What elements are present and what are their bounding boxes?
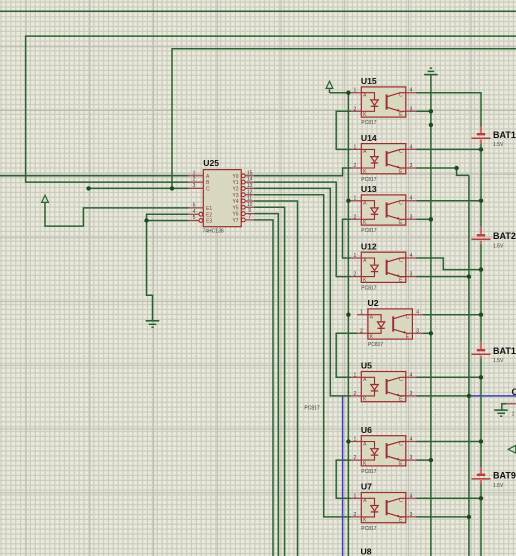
- wire U25 pin E3: [147, 220, 189, 222]
- node trunk below U15: [429, 123, 433, 127]
- node junction of top wire 3 drop and pin C wire: [170, 186, 174, 190]
- svg-text:10: 10: [247, 202, 253, 208]
- wire U7 collector to stack: [416, 497, 481, 499]
- battery stack segment below BAT9: [480, 484, 482, 556]
- ground below U25: [146, 321, 160, 328]
- wire U5 collector to stack: [416, 376, 481, 378]
- net label C clipped at right edge: [512, 387, 516, 397]
- wire U15 collector to battery stack top: [416, 93, 481, 127]
- wire U25 pin E2: [147, 214, 189, 320]
- svg-text:Y3: Y3: [232, 193, 238, 199]
- emitter trunk vertical even optos: [468, 175, 470, 556]
- node stack U2 tap: [479, 313, 483, 317]
- svg-text:PC817: PC817: [361, 120, 377, 126]
- svg-text:4: 4: [193, 209, 196, 215]
- node stack U14 tap: [479, 147, 483, 151]
- svg-text:7: 7: [248, 215, 251, 221]
- wire U13 emitter: [416, 218, 431, 220]
- svg-text:PC817: PC817: [304, 405, 320, 411]
- svg-text:PC817: PC817: [361, 469, 377, 475]
- node stack U5 tap: [479, 375, 483, 379]
- svg-text:1.5V: 1.5V: [493, 358, 504, 364]
- svg-text:BAT2: BAT2: [493, 231, 516, 241]
- wire U25 pin A input: [0, 175, 189, 177]
- svg-text:1: 1: [193, 170, 196, 176]
- node even trunk U12 emitter: [467, 274, 471, 278]
- svg-text:1.5V: 1.5V: [493, 142, 504, 148]
- battery stack segment BAT1 to U14 tap: [480, 144, 482, 227]
- node anode bus at U6: [346, 439, 350, 443]
- wire U12 emitter: [416, 276, 469, 278]
- svg-text:5: 5: [193, 215, 196, 221]
- node anode bus at U2: [346, 313, 350, 317]
- svg-text:U5: U5: [361, 361, 372, 371]
- wire U12 collector jog to stack: [416, 258, 481, 270]
- optocoupler U12 PC817: [351, 241, 417, 291]
- svg-text:C: C: [512, 387, 516, 397]
- ground at right edge: [494, 404, 508, 416]
- svg-text:14: 14: [247, 177, 253, 183]
- svg-text:U13: U13: [361, 184, 377, 194]
- svg-text:BAT10: BAT10: [493, 346, 516, 356]
- wire U6 cathode to U7 anode: [336, 460, 350, 498]
- node trunk U15 emitter: [429, 109, 433, 113]
- svg-text:C: C: [206, 187, 210, 193]
- node stack U7 tap: [479, 496, 483, 500]
- svg-text:U15: U15: [361, 76, 377, 86]
- wire Y0 from U25 to U14 cathode: [254, 168, 351, 176]
- optocoupler U13 PC817: [351, 184, 417, 234]
- wire U2 collector to stack: [423, 314, 481, 316]
- wire Y5 going off bottom: [254, 207, 285, 556]
- svg-text:6: 6: [193, 203, 196, 209]
- node trunk U2 emitter: [429, 331, 433, 335]
- svg-text:U25: U25: [203, 158, 219, 168]
- wire U2 cathode to U5 anode: [336, 333, 357, 377]
- svg-text:13: 13: [247, 183, 253, 189]
- wire Y7 going off bottom: [254, 220, 273, 556]
- battery stack segment below BAT2: [480, 244, 482, 341]
- optocoupler U2 PC817: [357, 298, 423, 348]
- node anode bus at U15: [346, 91, 350, 95]
- wire U6 emitter: [416, 459, 431, 461]
- svg-text:12: 12: [247, 189, 253, 195]
- node stack U13 tap: [479, 199, 483, 203]
- terminal arrow near U25: [42, 195, 49, 202]
- battery BAT2: [472, 227, 516, 250]
- red stub at right edge ground: [507, 403, 516, 405]
- wire Y6 going off bottom: [254, 214, 279, 556]
- node even trunk U5 emitter: [467, 394, 471, 398]
- svg-text:PC817: PC817: [368, 342, 384, 348]
- svg-text:E3: E3: [206, 219, 212, 225]
- wire U14 collector to stack: [416, 148, 481, 150]
- node on pin C wire left: [86, 186, 90, 190]
- optocoupler U15 PC817: [351, 76, 417, 126]
- ground top of emitter trunk: [424, 68, 438, 74]
- node even trunk U7 emitter: [467, 515, 471, 519]
- svg-text:E2: E2: [206, 212, 212, 218]
- wire U15 cathode to U14 anode: [336, 111, 350, 149]
- wire top horizontal 2 with left drop to U25 pin B: [26, 36, 516, 182]
- svg-text:74HC138: 74HC138: [203, 229, 224, 235]
- svg-text:PC817: PC817: [361, 286, 377, 292]
- decoder U25 74HC138: [189, 158, 254, 234]
- svg-text:1.5V: 1.5V: [493, 243, 504, 249]
- wire U7 emitter: [416, 516, 469, 518]
- svg-text:Y0: Y0: [232, 174, 238, 180]
- battery stack segment below BAT10: [480, 359, 482, 467]
- wire U13 collector to stack: [416, 200, 481, 202]
- wire from terminal to U25 pin E1: [45, 202, 189, 226]
- svg-text:Y2: Y2: [232, 187, 238, 193]
- svg-text:Y6: Y6: [232, 212, 238, 218]
- svg-text:1.5V: 1.5V: [493, 483, 504, 489]
- battery BAT1: [472, 127, 516, 149]
- node junction E3 wire on E2 vertical: [144, 218, 148, 222]
- terminal arrow at right edge: [508, 446, 516, 454]
- svg-text:PC817: PC817: [361, 177, 377, 183]
- node anode bus at U13: [346, 199, 350, 203]
- optocoupler U5 PC817: [351, 361, 417, 403]
- terminal arrow above anode bus: [326, 81, 333, 88]
- wire Y2 from U25 to U5 cathode: [254, 188, 351, 396]
- optocoupler U6 PC817: [351, 425, 417, 475]
- emitter trunk vertical odd optos: [430, 75, 432, 556]
- svg-text:BAT9: BAT9: [493, 471, 516, 481]
- wire U14 emitter with jog to even trunk: [416, 168, 469, 175]
- wire from terminal to U15 anode: [330, 88, 351, 92]
- svg-text:U12: U12: [361, 241, 377, 251]
- svg-text:Y5: Y5: [232, 205, 238, 211]
- wire U25 pin C input: [89, 187, 189, 189]
- svg-text:2: 2: [193, 177, 196, 183]
- svg-text:Y7: Y7: [232, 218, 238, 224]
- wire U5 emitter: [416, 395, 469, 397]
- svg-text:1: 1: [512, 411, 515, 417]
- wire Y4 going off bottom: [254, 201, 298, 556]
- battery BAT10: [472, 341, 516, 364]
- wire U6 collector to stack: [416, 441, 481, 443]
- svg-text:U8: U8: [361, 547, 372, 556]
- svg-text:PC817: PC817: [361, 228, 377, 234]
- label U8 of off-screen optocoupler: [361, 547, 372, 556]
- wire U15 emitter: [416, 110, 431, 112]
- svg-text:U2: U2: [368, 298, 379, 308]
- node stack U6 tap: [479, 439, 483, 443]
- node at U14 emitter jog: [454, 166, 458, 170]
- node trunk U6 emitter: [429, 458, 433, 462]
- svg-text:11: 11: [247, 196, 252, 202]
- node trunk U13 emitter: [429, 217, 433, 221]
- svg-text:U7: U7: [361, 482, 372, 492]
- wire top horizontal 1: [0, 10, 516, 12]
- svg-text:Y1: Y1: [232, 180, 238, 186]
- svg-text:BAT1: BAT1: [493, 130, 516, 140]
- svg-text:PC817: PC817: [361, 526, 377, 532]
- svg-text:9: 9: [248, 208, 251, 214]
- wire U13 cathode to U12 anode: [343, 219, 351, 258]
- blue wire horizontal at U5 emitter row: [469, 395, 516, 397]
- wire Y1 from U25 to U12 cathode: [254, 182, 351, 277]
- optocoupler U14 PC817: [351, 133, 417, 183]
- svg-text:15: 15: [247, 170, 253, 176]
- value label PC817 of U5 displaced left: [304, 405, 320, 411]
- optocoupler U7 PC817: [351, 482, 417, 532]
- battery BAT9: [472, 467, 516, 489]
- svg-text:3: 3: [193, 183, 196, 189]
- svg-text:E1: E1: [206, 206, 212, 212]
- node stack U12 tap: [479, 267, 483, 271]
- clipped 1.5V text right edge: [512, 411, 515, 417]
- anode bus vertical: [347, 93, 349, 556]
- wire top horizontal 3 with drop to node on U25 pin C wire: [172, 49, 516, 189]
- wire Y3 from U25 to U7 cathode: [254, 195, 351, 517]
- svg-text:Y4: Y4: [232, 199, 238, 205]
- svg-text:U14: U14: [361, 133, 377, 143]
- blue wire vertical left of opto column: [342, 396, 344, 556]
- svg-text:U6: U6: [361, 425, 372, 435]
- wire U2 emitter: [423, 332, 431, 334]
